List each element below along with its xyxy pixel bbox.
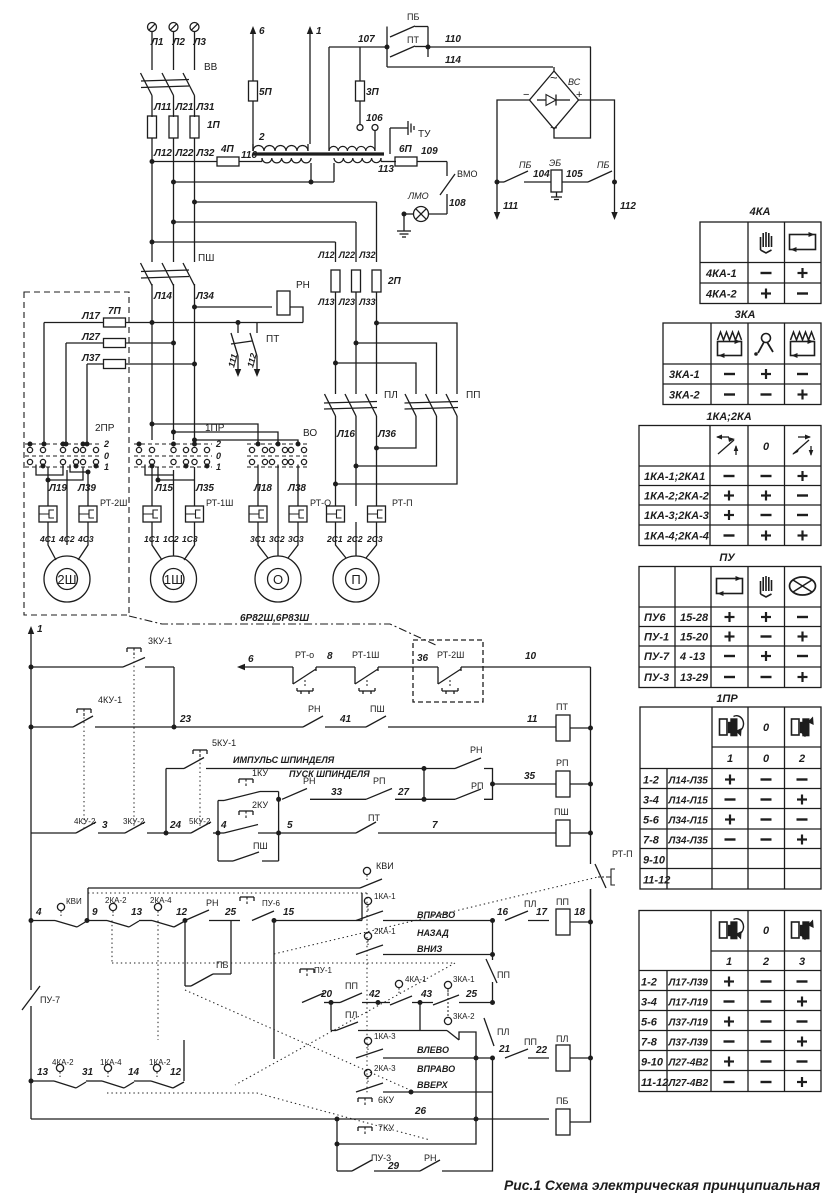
wire bbox=[336, 416, 377, 506]
svg-text:ПШ: ПШ bbox=[370, 704, 385, 714]
push button 1КУ bbox=[218, 768, 279, 801]
thermal contact РТ-о bbox=[293, 650, 316, 694]
node 108 bbox=[447, 194, 466, 214]
svg-text:Л11: Л11 bbox=[153, 102, 172, 113]
wire bbox=[213, 831, 224, 836]
wire bbox=[570, 782, 593, 787]
wire 107 bbox=[329, 34, 390, 50]
svg-text:4КА-2: 4КА-2 bbox=[705, 289, 737, 301]
component ЭБ bbox=[524, 158, 583, 200]
contactor ПП bbox=[405, 390, 481, 416]
node 10 bbox=[525, 651, 537, 662]
svg-text:0: 0 bbox=[763, 722, 770, 734]
junction bbox=[374, 321, 379, 326]
node Л17 bbox=[81, 311, 100, 322]
svg-text:РТ-О: РТ-О bbox=[310, 498, 331, 508]
wire bbox=[570, 726, 593, 731]
svg-text:4П: 4П bbox=[220, 144, 235, 155]
contact РН start bbox=[282, 776, 316, 799]
svg-text:15-28: 15-28 bbox=[680, 612, 709, 624]
svg-text:ПП: ПП bbox=[466, 390, 480, 401]
svg-text:КВИ: КВИ bbox=[66, 897, 82, 906]
junction bbox=[150, 159, 155, 164]
svg-text:Л18: Л18 bbox=[253, 483, 272, 494]
svg-text:105: 105 bbox=[566, 169, 583, 180]
svg-text:ПШ: ПШ bbox=[198, 253, 214, 264]
node Л11 bbox=[153, 102, 172, 113]
svg-text:Л22: Л22 bbox=[175, 148, 194, 159]
contact РП seal bbox=[424, 781, 495, 799]
table 4КА bbox=[700, 222, 821, 304]
wire bbox=[64, 438, 69, 447]
svg-text:ПБ: ПБ bbox=[597, 160, 610, 170]
wire bbox=[145, 465, 195, 483]
table 2ПР states bbox=[639, 911, 821, 1092]
svg-text:ЭБ: ЭБ bbox=[549, 158, 561, 168]
node Л22 bbox=[338, 250, 355, 260]
push button 7КУ bbox=[358, 1123, 394, 1136]
svg-text:Л37-Л19: Л37-Л19 bbox=[668, 1018, 709, 1029]
wire bbox=[152, 467, 195, 506]
svg-text:ЛМО: ЛМО bbox=[407, 191, 429, 201]
svg-text:23: 23 bbox=[179, 714, 192, 725]
node 7 bbox=[432, 820, 438, 831]
wire bbox=[383, 1044, 511, 1061]
junction bbox=[171, 430, 176, 435]
node Л31 bbox=[196, 102, 215, 113]
wire bbox=[173, 667, 175, 727]
junction node 24 bbox=[147, 820, 191, 836]
svg-text:7: 7 bbox=[432, 820, 438, 831]
wire bbox=[152, 241, 336, 243]
svg-text:113: 113 bbox=[378, 164, 394, 175]
svg-text:ПУ-1: ПУ-1 bbox=[314, 966, 332, 975]
wire bbox=[459, 1000, 495, 1005]
table 3КА bbox=[663, 323, 821, 405]
svg-text:3С3: 3С3 bbox=[288, 534, 304, 544]
switch ВВ bbox=[141, 62, 218, 96]
svg-text:ВПРАВО: ВПРАВО bbox=[417, 910, 455, 920]
node 41 bbox=[339, 714, 352, 725]
switch ПТ top bbox=[390, 35, 431, 57]
svg-text:ВВ: ВВ bbox=[204, 62, 218, 73]
wire bbox=[553, 67, 555, 71]
svg-text:ПБ: ПБ bbox=[216, 960, 228, 970]
wire link bbox=[273, 1058, 275, 1060]
svg-text:1КА-4: 1КА-4 bbox=[100, 1058, 122, 1067]
svg-text:Л17-Л39: Л17-Л39 bbox=[668, 978, 709, 989]
label ВВЕРХ bbox=[417, 1080, 449, 1090]
label ВПРАВО 2 bbox=[417, 1064, 455, 1074]
wire bbox=[358, 1003, 447, 1031]
table ПУ title bbox=[719, 552, 736, 564]
svg-text:Л14-Л15: Л14-Л15 bbox=[668, 796, 709, 807]
push button 6КУ bbox=[358, 1095, 394, 1107]
svg-text:Л31: Л31 bbox=[196, 102, 215, 113]
junction bbox=[192, 438, 197, 443]
svg-text:1КА;2КА: 1КА;2КА bbox=[706, 411, 751, 423]
svg-text:РТ-1Ш: РТ-1Ш bbox=[352, 650, 379, 660]
transformer ТУ core bbox=[253, 152, 384, 155]
wire bbox=[36, 465, 83, 483]
switch ПБ right of ЭБ bbox=[562, 160, 612, 182]
node Л32 bbox=[196, 148, 215, 159]
svg-text:Л15: Л15 bbox=[154, 483, 173, 494]
svg-text:112: 112 bbox=[620, 201, 636, 212]
svg-text:ПУ-7: ПУ-7 bbox=[40, 995, 60, 1005]
svg-text:Л21: Л21 bbox=[175, 102, 194, 113]
svg-text:НАЗАД: НАЗАД bbox=[417, 928, 449, 938]
svg-text:108: 108 bbox=[449, 198, 466, 209]
svg-text:106: 106 bbox=[366, 113, 383, 124]
svg-text:4С3: 4С3 bbox=[77, 534, 94, 544]
limit switch ПУ-1 bbox=[300, 966, 333, 1003]
svg-text:1КА-2;2КА-2: 1КА-2;2КА-2 bbox=[644, 491, 709, 503]
svg-text:3КА-2: 3КА-2 bbox=[669, 390, 700, 402]
transformer screen ground bbox=[390, 121, 431, 154]
svg-text:7П: 7П bbox=[108, 306, 122, 317]
wire bbox=[383, 1058, 493, 1095]
wire bbox=[378, 666, 438, 668]
svg-text:Л34-Л15: Л34-Л15 bbox=[668, 816, 709, 827]
node 13 bbox=[29, 1067, 49, 1084]
svg-text:13: 13 bbox=[37, 1067, 49, 1078]
svg-text:1: 1 bbox=[104, 462, 109, 472]
svg-text:Л38: Л38 bbox=[287, 483, 306, 494]
wire bbox=[152, 96, 195, 118]
wire bbox=[230, 921, 232, 975]
wire bbox=[412, 1000, 433, 1005]
svg-text:27: 27 bbox=[397, 787, 410, 798]
wire bbox=[174, 432, 279, 444]
svg-text:ВС: ВС bbox=[568, 77, 581, 87]
svg-text:9: 9 bbox=[92, 907, 98, 918]
junction bbox=[28, 442, 86, 447]
svg-text:Л19: Л19 bbox=[48, 483, 67, 494]
svg-text:Л27: Л27 bbox=[81, 332, 100, 343]
junction node 15 bbox=[272, 907, 295, 923]
svg-text:ПУСК ШПИНДЕЛЯ: ПУСК ШПИНДЕЛЯ bbox=[289, 769, 370, 779]
table 1ПР title bbox=[716, 693, 738, 705]
junction bbox=[171, 180, 176, 185]
terminals 106 bbox=[357, 113, 383, 131]
input terminal Л3 bbox=[190, 23, 206, 49]
wire bbox=[86, 364, 88, 438]
wire bbox=[325, 726, 366, 728]
svg-text:ПУ-7: ПУ-7 bbox=[644, 651, 670, 663]
contactor ПЛ bbox=[324, 390, 398, 416]
wire bbox=[484, 769, 493, 785]
svg-text:4КУ-1: 4КУ-1 bbox=[98, 695, 122, 705]
wire bbox=[423, 769, 425, 800]
svg-text:17: 17 bbox=[536, 907, 548, 918]
thermal relay РТ-2Ш bbox=[39, 498, 127, 522]
svg-text:РТ-П: РТ-П bbox=[392, 498, 413, 508]
wire bbox=[258, 820, 356, 836]
svg-text:9-10: 9-10 bbox=[643, 855, 666, 867]
fuse Л27 bbox=[66, 339, 176, 348]
junction node 9 bbox=[85, 907, 99, 923]
svg-text:П: П bbox=[351, 572, 360, 587]
wire bbox=[316, 666, 355, 668]
svg-text:Л32: Л32 bbox=[196, 148, 215, 159]
limit switch 3КУ-1 bbox=[31, 636, 174, 667]
junction bbox=[150, 240, 155, 245]
motor terminals 4С1 4С2 4С3 bbox=[39, 534, 94, 544]
wire bbox=[376, 202, 378, 262]
node 4 bbox=[29, 907, 43, 923]
wire bbox=[570, 1059, 591, 1122]
svg-text:ПЛ: ПЛ bbox=[524, 899, 536, 909]
boundary dashed box 2Ш bbox=[24, 292, 129, 615]
label ВЛЕВО bbox=[417, 1045, 449, 1055]
lamp ЛМО bbox=[402, 191, 448, 222]
fuse 6П bbox=[395, 144, 438, 166]
link 4КУ bbox=[83, 713, 85, 828]
contact ПТ seal bbox=[356, 813, 380, 833]
svg-text:0: 0 bbox=[763, 441, 770, 453]
svg-text:2С3: 2С3 bbox=[366, 534, 383, 544]
svg-text:2КА-2: 2КА-2 bbox=[105, 896, 127, 905]
transformer ТУ primary winding 2 bbox=[329, 47, 375, 151]
svg-text:Л17-Л19: Л17-Л19 bbox=[668, 998, 709, 1009]
relay coil ПШ bbox=[554, 807, 570, 846]
svg-text:2: 2 bbox=[103, 439, 109, 449]
svg-text:Л14-Л35: Л14-Л35 bbox=[668, 776, 709, 787]
svg-text:2КА-1: 2КА-1 bbox=[374, 927, 396, 936]
wire bbox=[273, 921, 275, 1060]
wire bbox=[195, 306, 273, 308]
svg-text:104: 104 bbox=[533, 169, 550, 180]
wire bbox=[335, 242, 337, 262]
wire bbox=[174, 726, 303, 728]
svg-text:5: 5 bbox=[287, 820, 293, 831]
svg-text:Л27-4В2: Л27-4В2 bbox=[668, 1078, 709, 1089]
svg-text:3С2: 3С2 bbox=[269, 534, 285, 544]
fuse 7П bbox=[44, 306, 152, 327]
svg-text:ВО: ВО bbox=[303, 428, 317, 439]
svg-text:РН: РН bbox=[296, 280, 310, 291]
svg-text:4КУ-2: 4КУ-2 bbox=[74, 817, 96, 826]
svg-text:35: 35 bbox=[524, 771, 536, 782]
wire bbox=[383, 921, 495, 958]
junction bbox=[256, 442, 301, 447]
svg-text:4КА-2: 4КА-2 bbox=[52, 1058, 74, 1067]
svg-text:1С3: 1С3 bbox=[182, 534, 198, 544]
node Л13 bbox=[317, 297, 334, 307]
node Л14 bbox=[153, 291, 172, 302]
svg-text:31: 31 bbox=[82, 1067, 94, 1078]
contact 3КА-2 bbox=[444, 990, 475, 1040]
junction bbox=[354, 341, 359, 346]
svg-text:1: 1 bbox=[316, 26, 322, 37]
svg-text:18: 18 bbox=[574, 907, 586, 918]
svg-text:7-8: 7-8 bbox=[643, 835, 660, 847]
node Л15 bbox=[154, 483, 173, 494]
svg-text:5П: 5П bbox=[259, 87, 273, 98]
relay coil РП bbox=[556, 758, 570, 797]
svg-text:ТУ: ТУ bbox=[418, 129, 431, 140]
svg-text:Л23: Л23 bbox=[338, 297, 355, 307]
node Л34 bbox=[195, 291, 214, 302]
svg-text:ПУ6: ПУ6 bbox=[644, 612, 666, 624]
contact ПП interlock 2 bbox=[505, 1037, 548, 1058]
wire bbox=[388, 726, 556, 728]
bridge rectifier ВС bbox=[523, 70, 582, 135]
wire bbox=[174, 221, 357, 223]
svg-text:42: 42 bbox=[368, 989, 381, 1000]
wire bbox=[152, 32, 195, 71]
junction bbox=[171, 220, 176, 225]
switch ВМО bbox=[440, 169, 478, 195]
wire bbox=[336, 292, 377, 394]
relay coil ПП bbox=[556, 897, 586, 935]
wire bbox=[570, 1056, 593, 1061]
svg-text:3КА-1: 3КА-1 bbox=[669, 369, 700, 381]
svg-text:3П: 3П bbox=[366, 87, 380, 98]
svg-text:ПЛ: ПЛ bbox=[384, 390, 398, 401]
svg-text:ПБ: ПБ bbox=[556, 1096, 568, 1106]
svg-text:11: 11 bbox=[527, 714, 538, 725]
svg-text:26: 26 bbox=[414, 1106, 427, 1117]
wire bbox=[87, 888, 89, 921]
contact 1КА-1 bbox=[356, 892, 396, 921]
svg-text:ПУ-3: ПУ-3 bbox=[644, 672, 669, 684]
wire bbox=[361, 893, 363, 921]
wire bbox=[395, 797, 427, 802]
node Л32 bbox=[358, 250, 375, 260]
svg-text:114: 114 bbox=[445, 55, 461, 66]
svg-text:ПЛ: ПЛ bbox=[497, 1027, 509, 1037]
link 3КУ bbox=[133, 657, 135, 828]
node 36 bbox=[417, 653, 429, 664]
wire bbox=[290, 307, 303, 323]
svg-text:Л13: Л13 bbox=[317, 297, 334, 307]
ground bbox=[397, 214, 411, 237]
svg-text:4КА-1: 4КА-1 bbox=[405, 975, 427, 984]
relay coil РН bbox=[277, 280, 310, 315]
switch ПБ left of ЭБ bbox=[497, 160, 550, 182]
svg-text:О: О bbox=[273, 572, 283, 587]
node Л37 bbox=[81, 353, 100, 364]
node Л27 bbox=[81, 332, 100, 343]
thermal contact РТ-2Ш bbox=[437, 650, 464, 694]
svg-text:15-20: 15-20 bbox=[680, 632, 709, 644]
contact ПЛ drop bbox=[484, 1018, 509, 1046]
table 1КА;2КА bbox=[639, 426, 821, 546]
svg-text:5-6: 5-6 bbox=[643, 815, 660, 827]
contact ПП drop bbox=[486, 955, 510, 1003]
mechanical link dotted 4 bbox=[107, 1093, 430, 1140]
svg-text:Л34-Л35: Л34-Л35 bbox=[668, 836, 709, 847]
wire bbox=[356, 343, 437, 394]
transformer ТУ secondary winding 1 bbox=[262, 158, 311, 163]
wire bbox=[0, 0, 1, 1]
wire bbox=[183, 1040, 185, 1081]
svg-text:3-4: 3-4 bbox=[641, 997, 657, 1009]
node Л38 bbox=[287, 483, 306, 494]
thermal relay РТ-О bbox=[249, 498, 331, 522]
contact 4КУ-2 bbox=[31, 817, 108, 833]
wire bbox=[0, 0, 1, 1]
svg-text:43: 43 bbox=[420, 989, 433, 1000]
svg-text:1: 1 bbox=[727, 753, 733, 765]
svg-text:7-8: 7-8 bbox=[641, 1037, 658, 1049]
wire bbox=[195, 201, 377, 203]
node Л22 bbox=[175, 148, 194, 159]
wire bbox=[336, 363, 417, 394]
node 33 bbox=[331, 787, 343, 798]
junction bbox=[137, 442, 198, 447]
contact КВИ bbox=[31, 897, 87, 927]
svg-text:1КА-3;2КА-3: 1КА-3;2КА-3 bbox=[644, 510, 709, 522]
svg-text:РП: РП bbox=[471, 781, 483, 791]
svg-text:ПШ: ПШ bbox=[253, 841, 268, 851]
wire to node 6 bbox=[250, 26, 265, 81]
svg-text:2КА-4: 2КА-4 bbox=[150, 896, 172, 905]
contact РН bbox=[303, 704, 323, 727]
svg-text:ПУ: ПУ bbox=[719, 552, 736, 564]
junction bbox=[29, 725, 34, 730]
contact 5КУ-1 bbox=[166, 738, 236, 769]
wire bbox=[442, 1092, 493, 1171]
svg-text:0: 0 bbox=[104, 451, 109, 461]
node Л36 bbox=[377, 429, 396, 440]
contact РП start bbox=[366, 776, 392, 799]
svg-text:12: 12 bbox=[176, 907, 188, 918]
wire bbox=[335, 1142, 340, 1172]
wire bbox=[333, 416, 457, 487]
node Л39 bbox=[77, 483, 96, 494]
svg-text:3: 3 bbox=[102, 820, 108, 831]
svg-text:1КА-3: 1КА-3 bbox=[374, 1032, 396, 1041]
contact 4КУ-1 bbox=[31, 695, 174, 727]
svg-text:ПБ: ПБ bbox=[407, 12, 419, 22]
input terminal Л2 bbox=[169, 23, 185, 49]
relay coil ПЛ bbox=[556, 1034, 570, 1071]
wire 110 bbox=[428, 34, 591, 47]
wire bbox=[174, 163, 335, 185]
thermal relay РТ-П bbox=[327, 498, 413, 522]
table 3КА title bbox=[735, 309, 756, 321]
wire bbox=[258, 465, 298, 557]
contact 2КА-1 bbox=[356, 927, 396, 955]
node Л33 bbox=[358, 297, 375, 307]
junction bbox=[192, 305, 197, 310]
caption bbox=[504, 1177, 820, 1193]
svg-text:22: 22 bbox=[535, 1045, 548, 1056]
wire bbox=[48, 465, 91, 507]
svg-text:1: 1 bbox=[37, 624, 43, 635]
svg-text:10: 10 bbox=[525, 651, 537, 662]
contact 3КУ-2 bbox=[98, 817, 145, 833]
node Л21 bbox=[175, 102, 194, 113]
node 8 bbox=[327, 651, 333, 662]
svg-text:2С2: 2С2 bbox=[346, 534, 363, 544]
wire bbox=[493, 783, 557, 785]
wire bbox=[378, 832, 556, 834]
node 25 bbox=[209, 907, 240, 921]
relay coil ПБ bbox=[556, 1096, 570, 1135]
contact РН bottom bbox=[374, 1153, 440, 1171]
wire bbox=[324, 1000, 340, 1005]
contact КВИ upper bbox=[88, 861, 394, 888]
mechanical link dotted 3 bbox=[274, 877, 598, 954]
svg-text:ПТ: ПТ bbox=[407, 35, 419, 45]
wire bbox=[43, 323, 45, 439]
svg-text:РН: РН bbox=[303, 776, 316, 786]
label ВНИЗ bbox=[417, 944, 442, 954]
